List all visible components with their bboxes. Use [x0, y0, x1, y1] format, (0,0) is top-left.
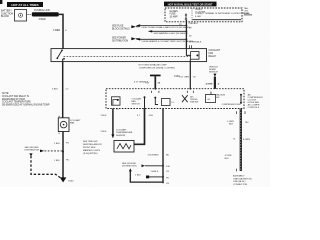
- coolant temperature sensor label: [116, 128, 133, 136]
- see ground distribution (left): [25, 147, 64, 152]
- fuse symbol: [185, 14, 187, 20]
- gages fuse label: [170, 10, 179, 19]
- wire switch box to temp sensor: [134, 108, 154, 144]
- switch box (comp 6): [206, 92, 216, 103]
- relay coil: [186, 45, 199, 61]
- see power distribution note: [112, 37, 140, 42]
- battery junction block label: [1, 10, 13, 19]
- wire relay coil to A/C switch box: [189, 62, 191, 89]
- wire to temp sender arrow: [101, 108, 120, 138]
- see ground distribution (middle): [122, 163, 163, 168]
- connector C100 stub: [145, 75, 161, 90]
- ground loop path (middle): [129, 168, 164, 182]
- coolant temperature sensor: [114, 141, 134, 153]
- relay label: [209, 49, 221, 58]
- wire fan motor to ground: [54, 132, 69, 180]
- wire to ground splice (middle): [148, 108, 171, 185]
- ground loop path (left, dashed): [29, 153, 32, 156]
- fuse block (dashed): [165, 8, 242, 22]
- splice branch 1 BLK: [135, 175, 169, 180]
- ALDL connector label: [233, 175, 253, 186]
- battery junction block: [15, 10, 27, 22]
- contact (comp 2): [144, 96, 146, 108]
- see twilight sentinel note: [83, 141, 102, 155]
- contact from C100 (comp 3): [154, 97, 158, 105]
- fan switch label: [132, 97, 143, 105]
- contact (comp 7): [240, 94, 242, 104]
- wire inside fuse block: [193, 19, 242, 21]
- relay switch: [56, 50, 65, 62]
- selector box (comp 4): [162, 99, 175, 106]
- connector marks below C100 junction: [152, 91, 194, 93]
- ground: [60, 177, 74, 182]
- corner mark: [0, 0, 2, 4]
- not used note: [139, 64, 175, 70]
- to vehicle speed sensor stub: [206, 67, 220, 89]
- braided wire to ALDL: [225, 109, 251, 172]
- pressure switch X (comp 5): [182, 95, 198, 103]
- note block: [2, 93, 50, 107]
- branch to gen warning (no arrow): [149, 30, 193, 37]
- fusible link: [32, 12, 59, 16]
- coolant fan relay box: [51, 49, 207, 62]
- branch to choke heater (arrow): [137, 38, 202, 43]
- branch to directional signals (arrow): [137, 24, 193, 29]
- fuse block right cell text: [195, 9, 249, 18]
- wire fusible link to relay: [59, 14, 63, 48]
- A/C - fan switch assembly (dashed box): [106, 89, 244, 109]
- header HOT AT ALL TIMES: [7, 2, 43, 7]
- header HOT IN RUN BULB TEST OR START: [164, 2, 217, 7]
- wire relay to fan motor: [52, 62, 69, 118]
- see fuse block details note: [112, 25, 140, 30]
- wire gages fuse down to relay: [185, 20, 187, 49]
- coolant fan motor: [58, 118, 81, 132]
- fan switch (comp 1): [112, 97, 121, 105]
- tail lamps fuse note: [244, 7, 252, 15]
- wire (dotted) junction block to fusible link: [27, 14, 32, 16]
- A/C compressor note (right): [248, 94, 264, 110]
- scan noise overlay: [0, 0, 1, 1]
